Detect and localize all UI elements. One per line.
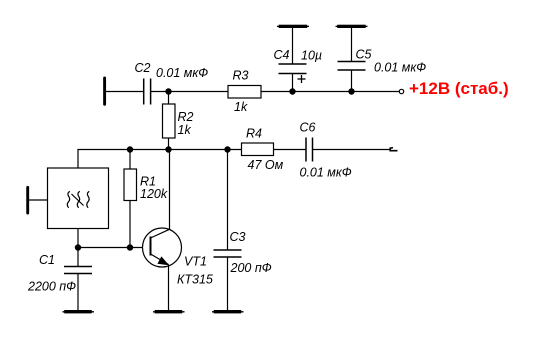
svg-text:C3: C3 — [230, 230, 246, 244]
resistor R3 — [228, 86, 261, 99]
svg-text:+12В (стаб.): +12В (стаб.) — [409, 79, 509, 98]
+12V terminal circle — [399, 89, 403, 93]
svg-text:C6: C6 — [300, 121, 316, 135]
wire C6 to output — [313, 149, 390, 151]
capacitor C4 — [279, 28, 307, 92]
resistor R1 — [124, 150, 137, 248]
output arrow terminal — [390, 148, 397, 151]
resistor R2 — [163, 104, 176, 138]
input terminal bar (top, to C2) — [103, 78, 106, 104]
svg-text:2200 пФ: 2200 пФ — [27, 280, 76, 294]
svg-text:R4: R4 — [246, 127, 262, 141]
svg-text:C2: C2 — [135, 61, 151, 75]
mid rail wire — [78, 150, 242, 169]
svg-text:C1: C1 — [39, 253, 55, 267]
node junction C4-rail — [289, 88, 295, 94]
wire crystal bottom — [77, 229, 79, 248]
wire R4 to C6 — [274, 149, 307, 151]
base wire — [78, 247, 143, 249]
svg-text:200 пФ: 200 пФ — [230, 261, 272, 275]
transistor VT1 — [143, 228, 182, 267]
ground bar above C4 — [277, 25, 309, 28]
ground bar above C5 — [336, 25, 368, 28]
node junction R2/collector-rail — [165, 146, 171, 152]
ground under C1 — [63, 310, 95, 313]
svg-text:0.01 мкФ: 0.01 мкФ — [374, 61, 426, 75]
svg-text:1k: 1k — [178, 123, 192, 137]
wire C2 to R3 — [151, 91, 228, 93]
node junction J1 — [165, 88, 171, 94]
node junction C3/R4-rail — [224, 146, 230, 152]
svg-text:R2: R2 — [178, 110, 194, 124]
svg-text:0.01 мкФ: 0.01 мкФ — [156, 66, 208, 80]
capacitor C6 — [306, 138, 313, 162]
resistor R4 — [242, 143, 274, 156]
wire input to C2 — [106, 91, 143, 93]
quartz/piezo sensor box BQ — [48, 168, 109, 229]
C4 plus sign — [298, 75, 306, 83]
emitter wire down — [168, 265, 170, 311]
capacitor C1 — [64, 248, 92, 311]
svg-text:0.01 мкФ: 0.01 мкФ — [300, 166, 352, 180]
wire R2 to mid rail — [168, 138, 170, 150]
ground under C3 — [212, 310, 244, 313]
node junction R1-rail — [127, 146, 133, 152]
svg-text:VT1: VT1 — [184, 255, 207, 269]
ground under emitter — [153, 310, 185, 313]
wire J1 down to R2 — [168, 92, 170, 105]
piezo squiggle symbol — [67, 191, 89, 207]
svg-text:1k: 1k — [234, 100, 248, 114]
svg-text:R3: R3 — [233, 69, 249, 83]
svg-text:120k: 120k — [140, 187, 168, 201]
wire R3 to +12V terminal — [261, 91, 400, 93]
capacitor C3 — [214, 150, 242, 311]
node junction crystal/C1 — [75, 244, 81, 250]
svg-text:C4: C4 — [274, 48, 290, 62]
node junction R1/base — [127, 244, 133, 250]
input terminal bar (left, to crystal) — [26, 187, 29, 213]
svg-text:47 Ом: 47 Ом — [248, 158, 284, 172]
svg-text:КТ315: КТ315 — [177, 273, 213, 287]
svg-text:C5: C5 — [356, 48, 372, 62]
collector wire up to rail — [169, 150, 171, 230]
capacitor C5 — [338, 28, 366, 92]
wire left bar to crystal box — [29, 199, 48, 201]
svg-text:10µ: 10µ — [301, 49, 322, 63]
capacitor C2 — [144, 79, 151, 105]
node junction C5-rail — [348, 88, 354, 94]
